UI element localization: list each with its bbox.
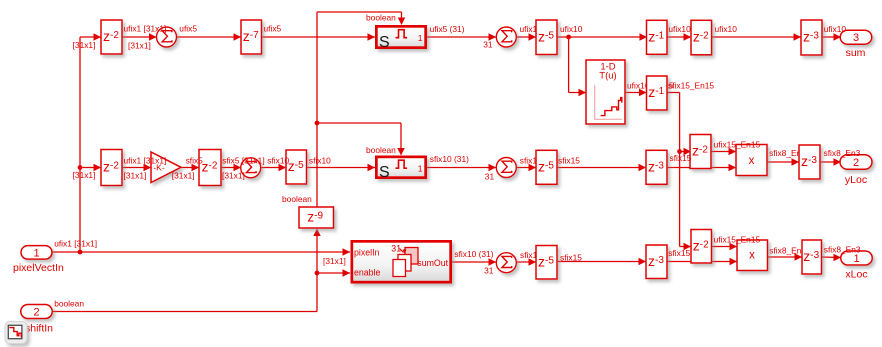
svg-text:sfix8_En3: sfix8_En3 — [824, 148, 861, 158]
svg-text:[31x1]: [31x1] — [73, 170, 96, 180]
svg-text:sfix5: sfix5 — [186, 156, 204, 166]
svg-text:ufix1 [31x1]: ufix1 [31x1] — [54, 239, 97, 249]
svg-text:sfix8_En3: sfix8_En3 — [824, 245, 861, 255]
svg-text:ufix5: ufix5 — [264, 23, 282, 33]
svg-text:ufix15_En15: ufix15_En15 — [714, 235, 761, 245]
svg-text:[31x1]: [31x1] — [128, 41, 151, 51]
svg-text:[31x1]: [31x1] — [323, 256, 346, 266]
svg-text:31: 31 — [483, 40, 493, 50]
svg-text:[31x1]: [31x1] — [73, 40, 96, 50]
svg-text:1: 1 — [418, 33, 423, 43]
svg-text:ufix10: ufix10 — [715, 24, 738, 34]
svg-text:31: 31 — [485, 172, 495, 182]
svg-text:1: 1 — [33, 247, 39, 259]
svg-text:boolean: boolean — [366, 145, 396, 155]
svg-text:ufix1 [31x1]: ufix1 [31x1] — [124, 156, 167, 166]
svg-text:sum: sum — [846, 47, 866, 59]
svg-text:yLoc: yLoc — [845, 174, 867, 186]
svg-text:1: 1 — [853, 253, 859, 265]
svg-text:sfix15: sfix15 — [560, 253, 582, 263]
svg-text:sfix10: sfix10 — [309, 156, 331, 166]
svg-text:2: 2 — [33, 307, 39, 319]
svg-text:ufix10: ufix10 — [668, 24, 691, 34]
svg-text:S: S — [379, 34, 390, 51]
svg-text:xLoc: xLoc — [845, 269, 867, 281]
svg-text:3: 3 — [853, 32, 859, 44]
svg-text:boolean: boolean — [282, 194, 312, 204]
svg-text:enable: enable — [354, 268, 381, 278]
svg-text:ufix1 [31x1]: ufix1 [31x1] — [124, 24, 167, 34]
svg-text:boolean: boolean — [366, 13, 396, 23]
svg-text:1: 1 — [418, 163, 423, 173]
svg-text:sfix15: sfix15 — [558, 156, 580, 166]
svg-text:sfix10: sfix10 — [267, 156, 289, 166]
svg-text:[31x1]: [31x1] — [124, 171, 147, 181]
svg-text:[31x1]: [31x1] — [222, 171, 245, 181]
svg-text:sfix15_En15: sfix15_En15 — [668, 81, 714, 91]
svg-text:sumOut: sumOut — [417, 258, 448, 268]
svg-text:x: x — [749, 249, 755, 261]
svg-text:sfix8_En3: sfix8_En3 — [769, 245, 806, 255]
svg-text:sfix10 (31): sfix10 (31) — [430, 154, 469, 164]
svg-text:31: 31 — [484, 266, 494, 276]
svg-text:sfix5 [31x1]: sfix5 [31x1] — [222, 156, 264, 166]
svg-text:sfix15: sfix15 — [668, 248, 690, 258]
svg-text:boolean: boolean — [54, 299, 84, 309]
svg-text:2: 2 — [853, 157, 859, 169]
svg-text:sfix15: sfix15 — [670, 153, 692, 163]
svg-text:T(u): T(u) — [599, 71, 616, 82]
svg-text:x: x — [749, 155, 755, 167]
svg-text:sfix10 (31): sfix10 (31) — [454, 249, 493, 259]
svg-text:shiftIn: shiftIn — [25, 323, 53, 335]
svg-text:ufix15_En15: ufix15_En15 — [714, 140, 761, 150]
svg-text:ufix10: ufix10 — [560, 24, 583, 34]
svg-text:ufix5 (31): ufix5 (31) — [430, 24, 465, 34]
svg-text:S: S — [379, 164, 390, 181]
svg-text:pixelIn: pixelIn — [354, 248, 380, 258]
svg-text:[31x1]: [31x1] — [172, 171, 195, 181]
svg-text:pixelVectIn: pixelVectIn — [13, 262, 64, 274]
svg-text:ufix10: ufix10 — [824, 24, 847, 34]
svg-text:ufix5: ufix5 — [179, 24, 197, 34]
